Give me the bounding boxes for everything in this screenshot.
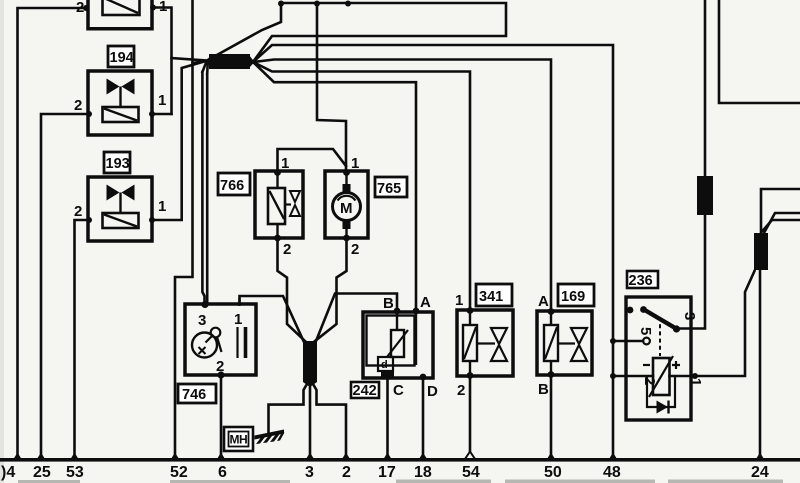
valve 193 — [74, 152, 166, 241]
relay 236 — [626, 271, 704, 420]
svg-text:A: A — [538, 293, 549, 310]
wire fan to 746 pin3 — [202, 62, 206, 73]
bottom scan residue — [18, 480, 783, 483]
svg-text:2: 2 — [76, 0, 84, 16]
svg-text:1: 1 — [158, 92, 166, 109]
wire 746 pin2 to terminal6 — [220, 375, 223, 459]
connector bar B (x705) — [697, 176, 713, 215]
svg-text:341: 341 — [479, 289, 503, 305]
scan edge strip — [0, 0, 4, 483]
svg-text:)4: )4 — [1, 464, 15, 481]
valve 169 — [537, 284, 594, 398]
wire fan to 746 top — [206, 62, 209, 74]
svg-text:2: 2 — [342, 464, 351, 481]
svg-text:6: 6 — [218, 464, 227, 481]
wire fan-out to 341 pin1 — [253, 62, 470, 309]
wire 242 pinB to splice — [316, 294, 397, 342]
splice block top — [206, 54, 255, 69]
wire 765 pin2 to splice funnel — [315, 238, 347, 341]
wire terminal25 to 194 pin2 — [41, 114, 89, 459]
svg-text:24: 24 — [751, 464, 769, 481]
svg-text:2: 2 — [216, 358, 224, 375]
svg-text:765: 765 — [377, 181, 401, 197]
svg-text:766: 766 — [220, 178, 244, 194]
node dot x613 y376 — [610, 373, 616, 379]
svg-text:50: 50 — [544, 464, 562, 481]
splice block center — [303, 341, 317, 387]
valve 341 — [455, 284, 513, 399]
svg-text:2: 2 — [351, 241, 359, 258]
wire 236 pin5 feed — [613, 340, 643, 343]
svg-text:1: 1 — [455, 292, 463, 309]
svg-text:5: 5 — [637, 327, 654, 335]
svg-text:M: M — [340, 200, 353, 217]
svg-text:17: 17 — [378, 464, 396, 481]
wire 766 pin2 to splice funnel — [278, 238, 306, 341]
svg-text:3: 3 — [305, 464, 314, 481]
svg-text:1: 1 — [351, 155, 359, 172]
svg-text:242: 242 — [353, 383, 377, 399]
wire top component pin1 to junction — [153, 8, 172, 115]
top component pin dots — [83, 5, 89, 11]
wire connector bar to right edge upper — [761, 189, 800, 234]
wire terminal14 to top component pin2 — [18, 8, 87, 459]
wire 236 pin2 feed — [613, 375, 653, 378]
node dot y3 x348 — [345, 1, 351, 7]
svg-text:d: d — [381, 359, 388, 371]
svg-text:3: 3 — [681, 312, 698, 320]
wire 766 pin1 to 765 pin1 — [278, 149, 347, 171]
svg-text:48: 48 — [603, 464, 621, 481]
svg-text:2: 2 — [641, 377, 658, 385]
wire terminal53 to 193 pin2 — [75, 220, 90, 459]
heater valve 766 — [218, 155, 303, 258]
svg-text:2: 2 — [457, 382, 465, 399]
wire connector bar to terminal24 — [759, 268, 762, 459]
svg-text:3: 3 — [198, 312, 206, 329]
svg-text:1: 1 — [281, 155, 289, 172]
wire center drop to 765 pin1 — [317, 3, 346, 171]
wire top right box — [719, 0, 800, 103]
svg-text:53: 53 — [66, 464, 84, 481]
svg-text:1: 1 — [159, 0, 167, 15]
wire splice to terminal3 — [309, 382, 312, 459]
motor 765 — [325, 155, 407, 258]
svg-text:1: 1 — [687, 378, 704, 386]
svg-text:1: 1 — [234, 311, 242, 328]
wire fan-out to 169 pinA — [253, 60, 551, 311]
MH label box — [224, 427, 253, 451]
wire 242 pinC to terminal17 — [386, 378, 389, 459]
wire 341 pin2 to terminal54 — [469, 376, 472, 453]
wire fan-in from 192.5 — [193, 61, 207, 63]
svg-text:18: 18 — [414, 464, 432, 481]
wire fan-out to 242 pinA — [253, 62, 416, 310]
wire 236 switch3 up the page — [677, 0, 705, 329]
wire 746 pin1 to splice — [240, 296, 304, 341]
wire 169 pinB to terminal50 — [550, 375, 553, 459]
wire 242 pinD to terminal18 — [422, 378, 425, 459]
wire splice to ground — [269, 384, 308, 433]
svg-text:194: 194 — [110, 50, 134, 66]
ground symbol — [255, 430, 285, 445]
top-center cut component box — [88, 0, 152, 29]
svg-text:2: 2 — [283, 241, 291, 258]
wire right edge lower to connector bar — [762, 220, 800, 232]
svg-text:B: B — [383, 295, 394, 312]
svg-text:MH: MH — [230, 433, 248, 447]
terminal feet — [14, 452, 765, 460]
wire right edge mid to connector bar — [765, 213, 800, 232]
wire splice to terminal2 — [313, 384, 346, 459]
svg-text:169: 169 — [561, 289, 585, 305]
node dot y3 x281 — [278, 1, 284, 7]
svg-text:B: B — [538, 381, 549, 398]
svg-text:193: 193 — [106, 156, 130, 172]
node dot x695 y376 — [692, 373, 698, 379]
svg-text:25: 25 — [33, 464, 51, 481]
terminal numbers — [1, 464, 769, 481]
svg-text:D: D — [427, 383, 438, 400]
wire upper loop into left junction tip — [207, 4, 281, 61]
bottom rail — [0, 458, 800, 462]
connector bar C (x760) — [754, 233, 768, 270]
wire top-edge feed to terminal52 — [175, 0, 193, 459]
wire 194 pin1 riser — [152, 113, 172, 116]
wire fan-out to terminal48 and 236 — [253, 45, 613, 459]
wire 193 pin1 riser — [152, 61, 206, 220]
svg-text:2: 2 — [74, 203, 82, 220]
wire fan-in from 171.5 — [172, 58, 207, 61]
svg-text:1: 1 — [158, 198, 166, 215]
wire fan-out to top loop y36 — [253, 3, 506, 62]
node dot x613 y341 — [610, 338, 616, 344]
svg-text:C: C — [393, 382, 404, 399]
wire 236 pin1 to connector bar — [670, 271, 755, 376]
sensor 242 — [351, 294, 438, 400]
svg-text:746: 746 — [182, 387, 206, 403]
node dot y3 x317 — [314, 1, 320, 7]
svg-text:A: A — [420, 294, 431, 311]
svg-text:54: 54 — [462, 464, 480, 481]
svg-text:52: 52 — [170, 464, 188, 481]
valve 194 — [74, 46, 166, 135]
pump 746 — [178, 298, 256, 403]
svg-text:2: 2 — [74, 97, 82, 114]
svg-text:236: 236 — [629, 273, 653, 289]
